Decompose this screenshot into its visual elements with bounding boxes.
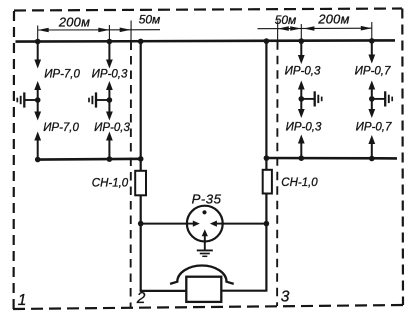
spark gap ИР-0,7 lower, mast 4: up arrow xyxy=(368,135,375,144)
dimension arrowhead 200m left (at mast 3) xyxy=(303,26,314,31)
spark gap ИР-0,3 lower, mast 2: down arrow xyxy=(108,100,110,113)
spark gap ИР-0,7 lower, mast 4: down arrow xyxy=(371,99,373,110)
junction mast 3 on top antenna wire xyxy=(299,38,305,44)
junction mast 4 on top antenna wire xyxy=(369,38,375,44)
svg-text:СН-1,0: СН-1,0 xyxy=(281,177,318,189)
dimension arrowhead 200m right (at mast 4) xyxy=(361,26,372,31)
dimension arrowhead left end 200m xyxy=(38,28,49,33)
junction right feeder on top antenna wire xyxy=(264,38,270,44)
zone boundary frame left xyxy=(13,11,16,309)
spark gap ИР-0,3 lower, mast 3: down arrow xyxy=(300,99,302,110)
dimension arrowhead 50m at divider xyxy=(120,28,131,33)
spark gap ИР-0,7 upper, mast 4: down arrow xyxy=(371,41,373,56)
dimension arrowhead 50m left (at divider 2|3) xyxy=(278,26,289,31)
svg-text:ИР-0,3: ИР-0,3 xyxy=(94,122,130,134)
junction right feeder on lower collector xyxy=(264,155,270,161)
dimension line 50m/200m right xyxy=(258,27,372,30)
zone boundary frame bottom xyxy=(13,305,403,309)
wire arrester to ground xyxy=(204,242,206,250)
junction mast 1 on top antenna wire xyxy=(35,39,41,45)
arrester Р-35 bottom electrode arrow xyxy=(204,236,206,242)
node mast 3 middle junction xyxy=(299,96,305,102)
spark gap ИР-0,3 upper, mast 2: up arrow xyxy=(106,81,113,90)
dimension extension line at mast 2 xyxy=(108,25,110,42)
svg-text:ИР-0,3: ИР-0,3 xyxy=(285,65,321,77)
spark gap ИР-7,0 upper, mast 1: down arrow xyxy=(37,42,39,61)
station base box xyxy=(186,277,221,302)
spark gap ИР-0,3 upper, mast 2: down arrow xyxy=(108,42,110,61)
spark gap ИР-0,3 upper, mast 3: down arrow xyxy=(300,41,302,56)
arrester Р-35 left electrode arrow xyxy=(187,223,193,225)
junction mast 2 on top antenna wire xyxy=(107,39,113,45)
arrester Р-35 circle xyxy=(187,206,223,242)
wire to station symbol left xyxy=(140,290,187,292)
resistor СН-1,0 right xyxy=(263,170,272,194)
spark gap ИР-7,0 lower, mast 1: down arrow xyxy=(37,100,39,113)
spark gap ИР-7,0 lower, mast 1: up arrow xyxy=(34,132,41,141)
wire: lower collector left xyxy=(37,158,143,161)
wire from arrester to right feeder xyxy=(216,223,266,225)
zone boundary frame top xyxy=(14,9,402,11)
resistor СН-1,0 left xyxy=(135,171,146,196)
spark gap ИР-7,0 upper, mast 1: up arrow xyxy=(34,81,41,90)
svg-text:ИР-0,3: ИР-0,3 xyxy=(286,121,322,133)
wire: top antenna line xyxy=(16,40,396,41)
junction right feeder / arrester wire xyxy=(264,221,270,227)
svg-text:200м: 200м xyxy=(58,14,90,29)
wire to station symbol right xyxy=(221,290,267,292)
node mast 4 middle junction xyxy=(369,96,375,102)
junction left feeder / arrester wire xyxy=(138,221,144,227)
dimension extension line at zone divider 1|2 xyxy=(130,21,132,42)
spark gap ИР-0,7 upper, mast 4: up arrow xyxy=(368,81,375,90)
svg-text:50м: 50м xyxy=(275,13,297,27)
svg-text:50м: 50м xyxy=(139,12,161,26)
station bell dome xyxy=(170,266,234,284)
node mast 2 middle junction xyxy=(107,97,113,103)
ground at mast 2 xyxy=(97,99,110,101)
dimension arrowhead 50m right (at mast 3) xyxy=(290,26,301,31)
ground under arrester xyxy=(197,249,213,251)
dimension extension line at mast 4 xyxy=(371,22,373,41)
zone boundary frame right xyxy=(401,9,404,306)
wire: left down-lead feeder xyxy=(140,41,142,291)
arrester Р-35 right electrode arrow xyxy=(217,223,223,225)
spark gap ИР-0,3 lower, mast 3: up arrow xyxy=(298,135,305,144)
spark gap ИР-0,3 lower, mast 2: up arrow xyxy=(106,132,113,141)
svg-text:ИР-7,0: ИР-7,0 xyxy=(43,122,79,134)
ground at mast 3 xyxy=(301,98,314,100)
arrester Р-35 top electrode dot xyxy=(202,210,206,214)
junction mast 3 on lower collector xyxy=(299,155,305,161)
svg-text:ИР-0,7: ИР-0,7 xyxy=(356,121,392,133)
zone divider 1|2 (dashed) xyxy=(130,42,132,308)
junction mast 1 on lower collector xyxy=(35,157,41,163)
zone divider 2|3 (dashed) xyxy=(276,41,278,306)
svg-text:ИР-7,0: ИР-7,0 xyxy=(44,69,80,81)
svg-text:200м: 200м xyxy=(317,11,349,26)
dimension arrowhead right end 200m xyxy=(98,28,109,33)
junction left feeder on top antenna wire xyxy=(138,39,144,45)
wire: right down-lead feeder xyxy=(265,41,267,291)
svg-text:ИР-0,7: ИР-0,7 xyxy=(355,65,391,77)
svg-text:3: 3 xyxy=(281,288,290,305)
wire: lower collector right xyxy=(266,157,397,160)
dimension line 200m/50m left xyxy=(38,29,160,31)
node mast 1 middle junction xyxy=(35,97,41,103)
ground at mast 4 xyxy=(372,98,385,100)
dimension extension line at zone divider 2|3 xyxy=(277,21,279,42)
wire from left feeder to arrester xyxy=(141,223,194,225)
svg-text:ИР-0,3: ИР-0,3 xyxy=(92,68,128,80)
junction mast 4 on lower collector xyxy=(369,156,375,162)
ground at mast 1 xyxy=(25,99,38,101)
dimension extension line at mast 3 xyxy=(300,24,302,41)
dimension extension line at mast 1 xyxy=(37,26,39,42)
svg-text:2: 2 xyxy=(136,290,146,307)
svg-text:1: 1 xyxy=(18,292,27,309)
spark gap ИР-0,3 upper, mast 3: up arrow xyxy=(298,81,305,90)
svg-text:СН-1,0: СН-1,0 xyxy=(92,177,129,189)
junction left feeder on lower collector xyxy=(138,156,144,162)
svg-text:Р-35: Р-35 xyxy=(192,191,222,206)
junction mast 2 on lower collector xyxy=(107,156,113,162)
